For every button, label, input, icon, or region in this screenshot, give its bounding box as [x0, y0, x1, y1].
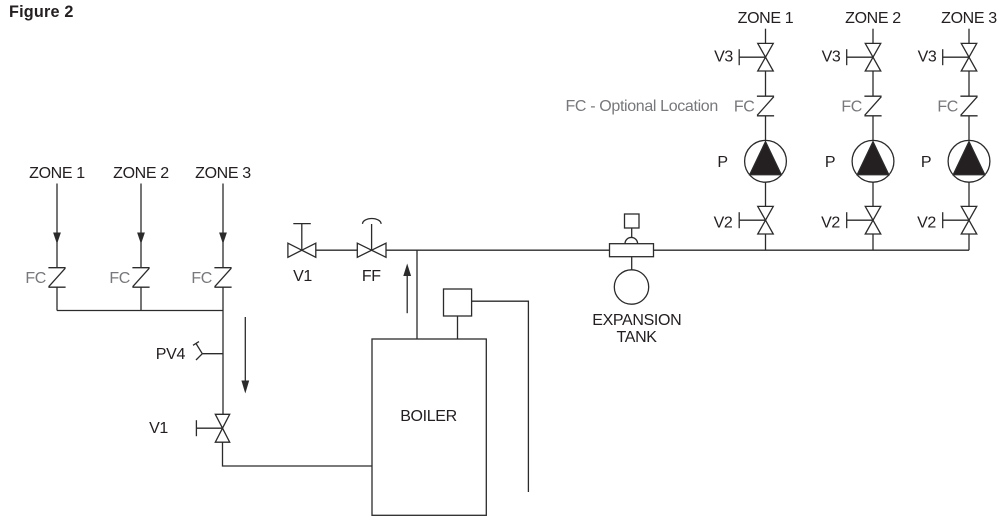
wire pump to V2 (zone3)	[968, 182, 970, 206]
svg-text:ZONE 3: ZONE 3	[195, 165, 251, 182]
wire V2 to main (zone2)	[872, 234, 874, 250]
wire V2 to main (zone1)	[765, 234, 767, 250]
wire V3 to FC (zone1)	[765, 71, 767, 96]
wire V3 to FC (zone3)	[968, 71, 970, 96]
wire relief discharge pipe	[472, 301, 529, 492]
svg-text:P: P	[921, 154, 931, 171]
valve FC (zone3 return)	[214, 268, 231, 288]
wire FC to pump (zone2)	[872, 116, 874, 141]
svg-text:TANK: TANK	[617, 329, 658, 346]
wire FC to pump (zone1)	[765, 116, 767, 141]
svg-text:BOILER: BOILER	[400, 408, 457, 425]
svg-text:FC: FC	[191, 270, 212, 287]
svg-text:ZONE 1: ZONE 1	[738, 10, 794, 27]
svg-text:V3: V3	[918, 49, 937, 66]
svg-text:P: P	[717, 154, 727, 171]
wire return manifold	[57, 310, 223, 312]
svg-text:V3: V3	[822, 49, 841, 66]
valve V2 (zone2)	[847, 206, 881, 234]
air vent	[625, 214, 640, 228]
wire zone2 to manifold	[140, 287, 142, 310]
valve FF (fast fill / pressure reducing)	[357, 219, 386, 258]
svg-text:EXPANSION: EXPANSION	[592, 312, 681, 329]
valve FC (zone3 supply)	[960, 96, 977, 116]
svg-text:PV4: PV4	[156, 346, 186, 363]
air separator	[610, 244, 654, 257]
wire return to boiler	[223, 442, 373, 466]
valve V3 (zone2)	[847, 43, 881, 71]
valve V1 (return riser)	[196, 414, 229, 442]
wire FC to pump (zone3)	[968, 116, 970, 141]
svg-text:V2: V2	[714, 214, 733, 231]
relief valve	[444, 289, 472, 316]
wire zone3 drop	[222, 184, 224, 268]
wire supply main (air separator to zone 3)	[654, 249, 970, 251]
valve FC (zone2 return)	[132, 268, 149, 288]
wire V3 to FC (zone2)	[872, 71, 874, 96]
flow arrow down (return riser)	[241, 317, 249, 394]
svg-text:FC - Optional Location: FC - Optional Location	[566, 98, 718, 115]
flow arrow down (zone2)	[137, 233, 145, 245]
flow arrow down (zone3)	[219, 233, 227, 245]
valve FC (zone2 supply)	[864, 96, 881, 116]
wire V2 to main (zone3)	[968, 234, 970, 250]
svg-text:ZONE 3: ZONE 3	[941, 10, 997, 27]
wire pump to V2 (zone1)	[765, 182, 767, 206]
svg-text:V1: V1	[149, 420, 168, 437]
wire zone2 drop	[140, 184, 142, 268]
expansion tank	[614, 270, 648, 304]
label EXPANSION TANK	[592, 312, 681, 346]
flow arrow up (supply riser)	[403, 264, 411, 314]
svg-text:FC: FC	[25, 270, 46, 287]
boiler	[372, 339, 486, 515]
pump P (zone3)	[948, 140, 990, 182]
wire zone3 top	[968, 29, 970, 44]
pump P (zone1)	[745, 140, 787, 182]
svg-text:ZONE 2: ZONE 2	[113, 165, 169, 182]
svg-text:ZONE 2: ZONE 2	[845, 10, 901, 27]
svg-text:ZONE 1: ZONE 1	[29, 165, 85, 182]
valve V2 (zone1)	[739, 206, 773, 234]
wire zone1 to manifold	[56, 287, 58, 310]
wire pump to V2 (zone2)	[872, 182, 874, 206]
svg-text:FC: FC	[937, 99, 958, 116]
svg-text:FC: FC	[734, 99, 755, 116]
valve V3 (zone1)	[739, 43, 773, 71]
valve V2 (zone3)	[943, 206, 977, 234]
wire zone3 to manifold	[222, 287, 224, 310]
wire zone1 top	[765, 29, 767, 44]
svg-text:FC: FC	[841, 99, 862, 116]
svg-text:FC: FC	[109, 270, 130, 287]
wire separator to air vent	[631, 228, 633, 237]
valve V3 (zone3)	[943, 43, 977, 71]
svg-text:V2: V2	[917, 214, 936, 231]
wire relief valve to boiler	[457, 316, 459, 339]
valve V1 (fill line)	[288, 224, 316, 258]
svg-text:Figure 2: Figure 2	[9, 3, 74, 21]
pump P (zone2)	[852, 140, 894, 182]
valve FC (zone1 supply)	[757, 96, 774, 116]
wire boiler supply riser	[416, 250, 418, 339]
air vent dome	[625, 237, 638, 243]
flow arrow down (zone1)	[53, 233, 61, 245]
wire zone1 drop	[56, 184, 58, 268]
purge valve PV4	[193, 342, 223, 360]
svg-text:FF: FF	[362, 268, 381, 285]
svg-text:V2: V2	[821, 214, 840, 231]
svg-text:P: P	[825, 154, 835, 171]
wire return riser (manifold to V1)	[222, 311, 224, 415]
svg-text:V1: V1	[293, 268, 312, 285]
wire supply main (FF to air separator)	[386, 249, 610, 251]
wire zone2 top	[872, 29, 874, 44]
svg-text:V3: V3	[714, 49, 733, 66]
wire separator to expansion tank	[631, 257, 633, 270]
valve FC (zone1 return)	[48, 268, 65, 288]
wire V1 to FF	[316, 249, 358, 251]
